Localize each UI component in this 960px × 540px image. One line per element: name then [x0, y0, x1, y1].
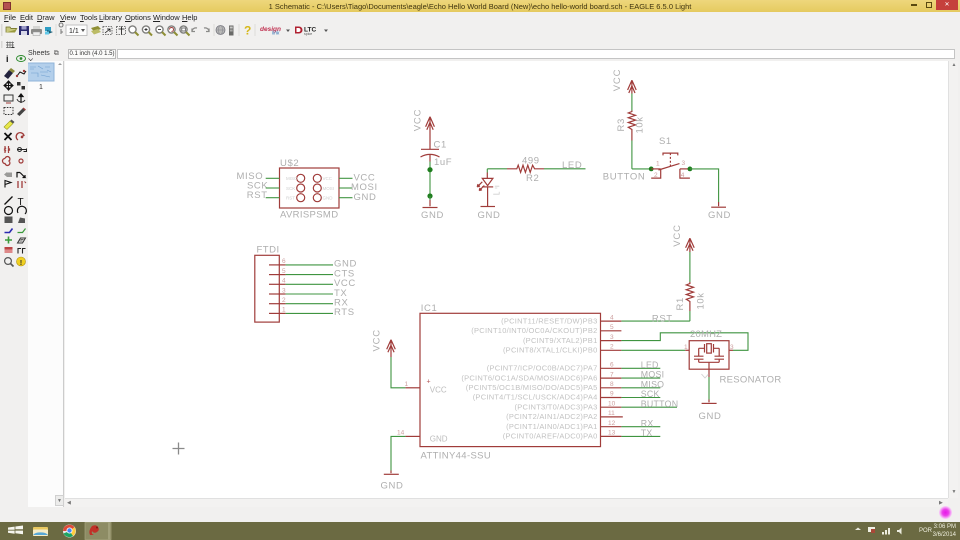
wire FTDI 3 to TX: [286, 293, 333, 295]
resistor R1: [675, 282, 707, 311]
open folder: [6, 28, 18, 33]
LED1 name marks: [495, 186, 500, 188]
resonator Q1 20MHZ: [684, 329, 782, 386]
svg-text:2: 2: [610, 344, 614, 351]
FTDI pad 4: [269, 283, 278, 285]
wire C1 to GND: [429, 162, 431, 197]
wire RST to U$2: [266, 197, 280, 199]
svg-text:link: link: [272, 31, 280, 37]
svg-text:FTDI: FTDI: [257, 245, 280, 256]
IC1 pin 2 PB0: [601, 349, 622, 351]
wire VCC to IC1 pin 1: [391, 357, 405, 388]
svg-text:RESONATOR: RESONATOR: [720, 375, 782, 386]
wire IC1 pin 12 to RX label: [621, 426, 660, 428]
svg-text:C1: C1: [434, 140, 447, 151]
FTDI pad 6: [269, 264, 278, 266]
power symbol VCC above C1: [413, 109, 435, 150]
svg-text:4: 4: [610, 314, 614, 321]
junction above GND of C1: [427, 193, 432, 198]
svg-text:R3: R3: [616, 118, 627, 131]
svg-text:VCC: VCC: [672, 224, 683, 246]
eagle taskbar button: [85, 523, 111, 540]
grid arrows icon 2: [117, 27, 126, 35]
svg-text:7: 7: [610, 371, 614, 378]
svg-text:?: ?: [244, 24, 251, 38]
svg-text:(PCINT8/XTAL1/CLKI)PB0: (PCINT8/XTAL1/CLKI)PB0: [503, 346, 598, 355]
svg-text:10k: 10k: [696, 292, 707, 309]
menu bar: [0, 12, 960, 22]
svg-text:1uF: 1uF: [434, 157, 452, 168]
separator: [56, 24, 57, 36]
svg-text:11: 11: [608, 410, 615, 417]
svg-text:1: 1: [405, 381, 409, 388]
svg-text:RST: RST: [286, 196, 295, 201]
tray action center flag: [868, 527, 875, 533]
svg-text:(PCINT10/INT0/OC0A/CKOUT)PB2: (PCINT10/INT0/OC0A/CKOUT)PB2: [471, 326, 597, 335]
svg-text:spice: spice: [304, 32, 312, 36]
IC1 pin 14 GND: [405, 435, 420, 437]
svg-text:AVRISPSMD: AVRISPSMD: [280, 210, 338, 221]
row10: name / value: [4, 172, 12, 177]
svg-text:20MHZ: 20MHZ: [690, 329, 722, 340]
svg-text:LED: LED: [641, 360, 659, 370]
wire IC1 pin 6 to LED label: [621, 367, 660, 369]
IC1 pin 11 PA2: [601, 416, 623, 418]
row14: rect / polygon: [5, 217, 13, 224]
U$2 pad MOSI: [313, 184, 321, 192]
resonator pin 1 stub: [685, 349, 689, 351]
sheet stack: [91, 26, 101, 32]
wire LED node to R2: [487, 168, 507, 170]
ground symbol GND below resonator: [699, 403, 722, 421]
undo: [192, 28, 197, 32]
U$2 pad VCC: [313, 174, 321, 182]
capacitor C1: [421, 140, 453, 168]
svg-text:1: 1: [684, 344, 688, 351]
IC1 pin 6 PA7: [601, 367, 622, 369]
wire IC1 pin 14 to GND: [391, 436, 405, 470]
wire IC1 pin 8 to MISO label: [621, 387, 660, 389]
svg-text:(PCINT0/AREF/ADC0)PA0: (PCINT0/AREF/ADC0)PA0: [503, 432, 598, 441]
svg-text:!: !: [20, 258, 23, 267]
wire U$2 to VCC label: [339, 177, 353, 179]
wire IC1 pin 2 to resonator pin 1: [621, 349, 685, 351]
start button: [8, 526, 23, 535]
svg-text:3: 3: [282, 287, 286, 294]
IC1 pin 8 PA5: [601, 387, 622, 389]
wire FTDI 5 to CTS: [286, 274, 333, 276]
row16: junction / label: [5, 237, 12, 244]
FTDI pad 5: [269, 274, 278, 276]
svg-text:2: 2: [654, 172, 658, 179]
svg-text:499: 499: [522, 155, 540, 166]
IC IC1 ATTINY44-SSU: [397, 303, 623, 462]
U$2 pad RST: [297, 194, 305, 202]
column icon: [229, 26, 234, 36]
svg-text:12: 12: [608, 420, 616, 427]
svg-text:(PCINT7/ICP/OC0B/ADC7)PA7: (PCINT7/ICP/OC0B/ADC7)PA7: [487, 364, 598, 373]
row7: delete / add: [5, 133, 12, 140]
svg-text:1: 1: [656, 161, 660, 168]
U$2 pad MISO: [297, 174, 305, 182]
wire FTDI 6 to GND: [286, 264, 333, 266]
resonator pin 3 stub: [729, 349, 733, 351]
IC1 pin 9 PA4: [601, 397, 622, 399]
wire VCC to R3: [631, 94, 633, 111]
tray hidden icons arrow: [855, 528, 861, 531]
junction at S1 left pin: [649, 167, 654, 172]
svg-text:3: 3: [610, 334, 614, 341]
U$2 pad GND: [313, 194, 321, 202]
svg-text:8: 8: [610, 381, 614, 388]
row2: display / mark: [4, 70, 13, 79]
wire junction to GND symbol: [429, 196, 431, 200]
window title bar: [0, 0, 960, 12]
wire resonator pin 2 to GND: [708, 377, 710, 400]
explorer icon: [33, 527, 48, 536]
wire IC1 pin 9 to SCK label: [621, 397, 660, 399]
row11: smash / miter: [5, 181, 11, 188]
row12: wire / text: [5, 197, 13, 205]
wire IC1 pin 4 to RST / R1: [621, 320, 690, 322]
switch S1: [651, 136, 690, 179]
wire R1 to RST wire: [689, 311, 691, 321]
LTC logo: [295, 27, 303, 34]
svg-text:(PCINT9/XTAL2)PB1: (PCINT9/XTAL2)PB1: [523, 336, 598, 345]
row3: move / copy: [4, 81, 13, 90]
toolbar row 2: [0, 38, 960, 48]
IC1 pin 12 PA1: [601, 426, 622, 428]
resistor R3: [616, 111, 646, 141]
1/1 combo: [66, 25, 87, 36]
junction below C1: [427, 167, 432, 172]
svg-text:6: 6: [610, 362, 614, 369]
command row: [0, 48, 960, 61]
separator: [214, 24, 215, 36]
svg-text:(PCINT6/OC1A/SDA/MOSI/ADC6)PA6: (PCINT6/OC1A/SDA/MOSI/ADC6)PA6: [461, 373, 597, 382]
wire U$2 to MOSI label: [339, 187, 353, 189]
svg-text:(PCINT2/AIN1/ADC2)PA2: (PCINT2/AIN1/ADC2)PA2: [506, 412, 597, 421]
globe: [216, 26, 225, 35]
resonator internal capacitors: [694, 348, 704, 362]
svg-text:BUTTON: BUTTON: [603, 172, 645, 183]
svg-text:MOSI: MOSI: [323, 186, 335, 191]
zoom out: [156, 26, 166, 36]
sheets panel: [28, 61, 64, 508]
ground symbol GND below IC1: [381, 474, 404, 491]
svg-text:VCC: VCC: [430, 386, 447, 395]
IC1 pin 4 PB3: [601, 320, 622, 322]
svg-text:(PCINT4/T1/SCL/USCK/ADC4)PA4: (PCINT4/T1/SCL/USCK/ADC4)PA4: [473, 393, 598, 402]
grid arrows icon 1: [103, 27, 112, 35]
svg-text:GND: GND: [421, 210, 444, 221]
svg-text:GND: GND: [430, 434, 448, 443]
svg-text:13: 13: [608, 430, 616, 437]
redo: [204, 28, 209, 32]
key icon: [59, 23, 63, 34]
zoom select: [180, 26, 190, 36]
wire IC1 pin 7 to MOSI label: [621, 377, 660, 379]
wire VCC to R1: [689, 252, 691, 282]
connector U$2 AVRISPSMD: [280, 158, 340, 221]
zoom redraw: [168, 26, 178, 36]
svg-text:GND: GND: [699, 411, 722, 422]
svg-text:(PCINT5/OC1B/MISO/DO/ADC5)PA5: (PCINT5/OC1B/MISO/DO/ADC5)PA5: [466, 383, 598, 392]
svg-text:(PCINT11/RESET/DW)PB3: (PCINT11/RESET/DW)PB3: [501, 316, 597, 325]
save floppy: [19, 26, 29, 35]
zoom fit: [129, 26, 139, 36]
svg-text:S1: S1: [659, 136, 672, 147]
svg-text:3: 3: [682, 160, 686, 167]
resistor R2: [507, 155, 544, 184]
svg-text:MOSI: MOSI: [641, 370, 664, 380]
U$2 pad SCK: [297, 184, 305, 192]
FTDI pad 2: [269, 303, 278, 305]
wire to S1 pin: [632, 168, 651, 170]
svg-text:TX: TX: [641, 428, 653, 438]
ground symbol GND right of S1: [708, 207, 731, 221]
resonator pin 2 stub: [708, 369, 710, 377]
resonator name mark: [702, 374, 709, 378]
svg-text:4: 4: [282, 278, 286, 285]
IC1 pin 3 PB1: [601, 340, 622, 342]
svg-text:6: 6: [282, 258, 286, 265]
svg-text:10k: 10k: [635, 116, 646, 133]
svg-text:VCC: VCC: [413, 109, 424, 131]
row8: pinswap / replace: [4, 146, 10, 153]
svg-text:MISO: MISO: [286, 176, 298, 181]
row4: mirror / rotate: [4, 95, 13, 101]
IC1 pin 13 PA0: [601, 435, 622, 437]
IC1 pin 5 PB2: [601, 330, 622, 332]
LED1 emission arrows: [477, 182, 482, 187]
svg-text:14: 14: [397, 430, 405, 437]
IC1 pin 1 VCC: [405, 387, 420, 389]
taskbar: [0, 522, 960, 540]
svg-text:1: 1: [39, 84, 43, 91]
svg-text:R2: R2: [526, 173, 539, 184]
export/use: [45, 27, 51, 31]
svg-text:U$2: U$2: [280, 158, 299, 169]
ground symbol GND below LED1: [478, 207, 501, 221]
IC1 pin 7 PA6: [601, 377, 622, 379]
row6: paint: [4, 121, 13, 130]
canvas: [65, 61, 948, 498]
svg-text:VCC: VCC: [323, 176, 333, 181]
svg-text:SCK: SCK: [641, 389, 660, 399]
wire corner down to LED1: [486, 169, 488, 173]
wire IC1 pin 3 to resonator pin 3: [621, 333, 748, 351]
svg-text:RST: RST: [247, 190, 268, 201]
row13: circle / arc: [5, 207, 13, 215]
svg-text:ATTINY44-SSU: ATTINY44-SSU: [421, 451, 492, 462]
ground symbol GND below C1: [421, 208, 444, 221]
svg-text:i: i: [6, 54, 9, 64]
connector FTDI: [255, 245, 286, 323]
tray network bars: [882, 528, 890, 535]
svg-text:VCC: VCC: [612, 69, 623, 91]
tray speaker: [897, 528, 902, 535]
row17: erc / errors: [5, 247, 13, 253]
mouse crosshair: [173, 443, 185, 455]
svg-text:VCC: VCC: [371, 329, 382, 351]
svg-text:2: 2: [282, 297, 286, 304]
svg-text:SCK: SCK: [286, 186, 295, 191]
svg-text:4: 4: [681, 172, 685, 179]
FTDI pad 3: [269, 293, 278, 295]
wire FTDI 2 to RX: [286, 303, 333, 305]
svg-text:RST: RST: [652, 313, 673, 324]
svg-text:R1: R1: [675, 297, 686, 310]
zoom in: [142, 26, 152, 36]
svg-text:1/1: 1/1: [69, 28, 79, 35]
row5: group / change: [4, 108, 13, 115]
row15: bus / net: [5, 229, 13, 233]
wire U$2 to GND label: [339, 197, 353, 199]
left tool palette: [0, 48, 28, 508]
magenta notification dot: [939, 506, 952, 519]
wire R2 to LED net label: [544, 168, 586, 170]
svg-text:LED: LED: [562, 160, 582, 171]
svg-text:3: 3: [730, 344, 734, 351]
separator: [239, 24, 240, 36]
wire SCK to U$2: [266, 187, 280, 189]
wire FTDI 4 to VCC: [286, 283, 333, 285]
svg-text:9: 9: [610, 391, 614, 398]
svg-text:+: +: [427, 379, 431, 386]
svg-text:(PCINT1/AIN0/ADC1)PA1: (PCINT1/AIN0/ADC1)PA1: [506, 422, 597, 431]
chrome icon: [63, 525, 76, 538]
wire MISO to U$2: [266, 177, 280, 179]
wire IC1 pin 10 to BUTTON label: [621, 406, 677, 408]
svg-text:(PCINT3/T0/ADC3)PA3: (PCINT3/T0/ADC3)PA3: [515, 402, 598, 411]
separator: [255, 24, 256, 36]
svg-text:1: 1: [282, 307, 286, 314]
print: [31, 29, 42, 34]
IC1 pin 10 PA3: [601, 406, 622, 408]
svg-text:MISO: MISO: [641, 379, 664, 389]
svg-text:GND: GND: [478, 210, 501, 221]
svg-text:RTS: RTS: [334, 307, 355, 318]
junction at S1 right pin: [688, 167, 693, 172]
svg-text:RX: RX: [641, 418, 654, 428]
svg-text:GND: GND: [323, 196, 334, 201]
row18: attribute / erc-err: [5, 258, 12, 265]
toolbar row 1: [0, 22, 960, 38]
power symbol VCC above R3: [612, 69, 636, 94]
power symbol VCC left of IC1: [371, 329, 395, 357]
svg-text:BUTTON: BUTTON: [641, 399, 679, 409]
LED LED1: [477, 173, 499, 207]
wire FTDI 1 to RTS: [286, 312, 333, 314]
wire S1 to GND: [690, 169, 719, 202]
svg-text:5: 5: [610, 324, 614, 331]
svg-text:5: 5: [282, 268, 286, 275]
resonator crystal element: [705, 344, 714, 353]
svg-text:IC1: IC1: [421, 303, 438, 314]
scrollbars: [948, 61, 958, 498]
svg-text:GND: GND: [354, 192, 377, 203]
svg-text:10: 10: [608, 400, 616, 407]
svg-text:GND: GND: [381, 481, 404, 492]
svg-text:GND: GND: [708, 210, 731, 221]
row9: gateswap: [3, 157, 10, 166]
power symbol VCC above R1: [672, 224, 694, 252]
FTDI pad 1: [269, 312, 278, 314]
wire R3 to button node: [631, 141, 633, 169]
wire IC1 pin 13 to TX label: [621, 435, 660, 437]
